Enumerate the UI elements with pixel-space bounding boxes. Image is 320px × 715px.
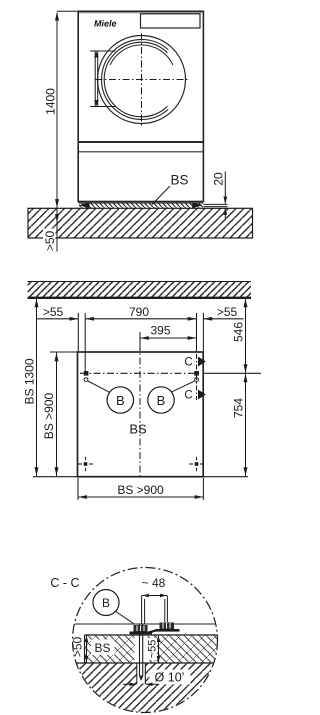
svg-text:395: 395 xyxy=(150,324,170,338)
svg-text:~ 48: ~ 48 xyxy=(142,576,166,590)
svg-text:BS >900: BS >900 xyxy=(117,483,164,497)
svg-text:1400: 1400 xyxy=(44,88,58,115)
svg-text:C - C: C - C xyxy=(50,576,79,590)
svg-text:790: 790 xyxy=(129,305,149,319)
svg-text:BS >900: BS >900 xyxy=(42,392,56,439)
svg-text:~55: ~55 xyxy=(147,640,159,659)
svg-text:BS: BS xyxy=(129,422,147,437)
svg-text:BS: BS xyxy=(170,173,188,188)
svg-text:Ø 10’: Ø 10’ xyxy=(155,670,185,684)
svg-text:754: 754 xyxy=(232,398,246,418)
svg-text:B: B xyxy=(157,393,166,408)
svg-text:BS 1300: BS 1300 xyxy=(23,358,37,404)
svg-text:20: 20 xyxy=(212,172,226,186)
svg-text:B: B xyxy=(102,596,110,610)
svg-text:BS: BS xyxy=(94,641,110,655)
svg-text:C: C xyxy=(184,389,192,401)
svg-text:B: B xyxy=(116,393,125,408)
svg-text:>55: >55 xyxy=(217,305,238,319)
svg-text:>50: >50 xyxy=(43,230,57,251)
svg-text:C: C xyxy=(184,356,192,368)
svg-text:546: 546 xyxy=(232,322,246,342)
svg-text:>55: >55 xyxy=(43,305,64,319)
